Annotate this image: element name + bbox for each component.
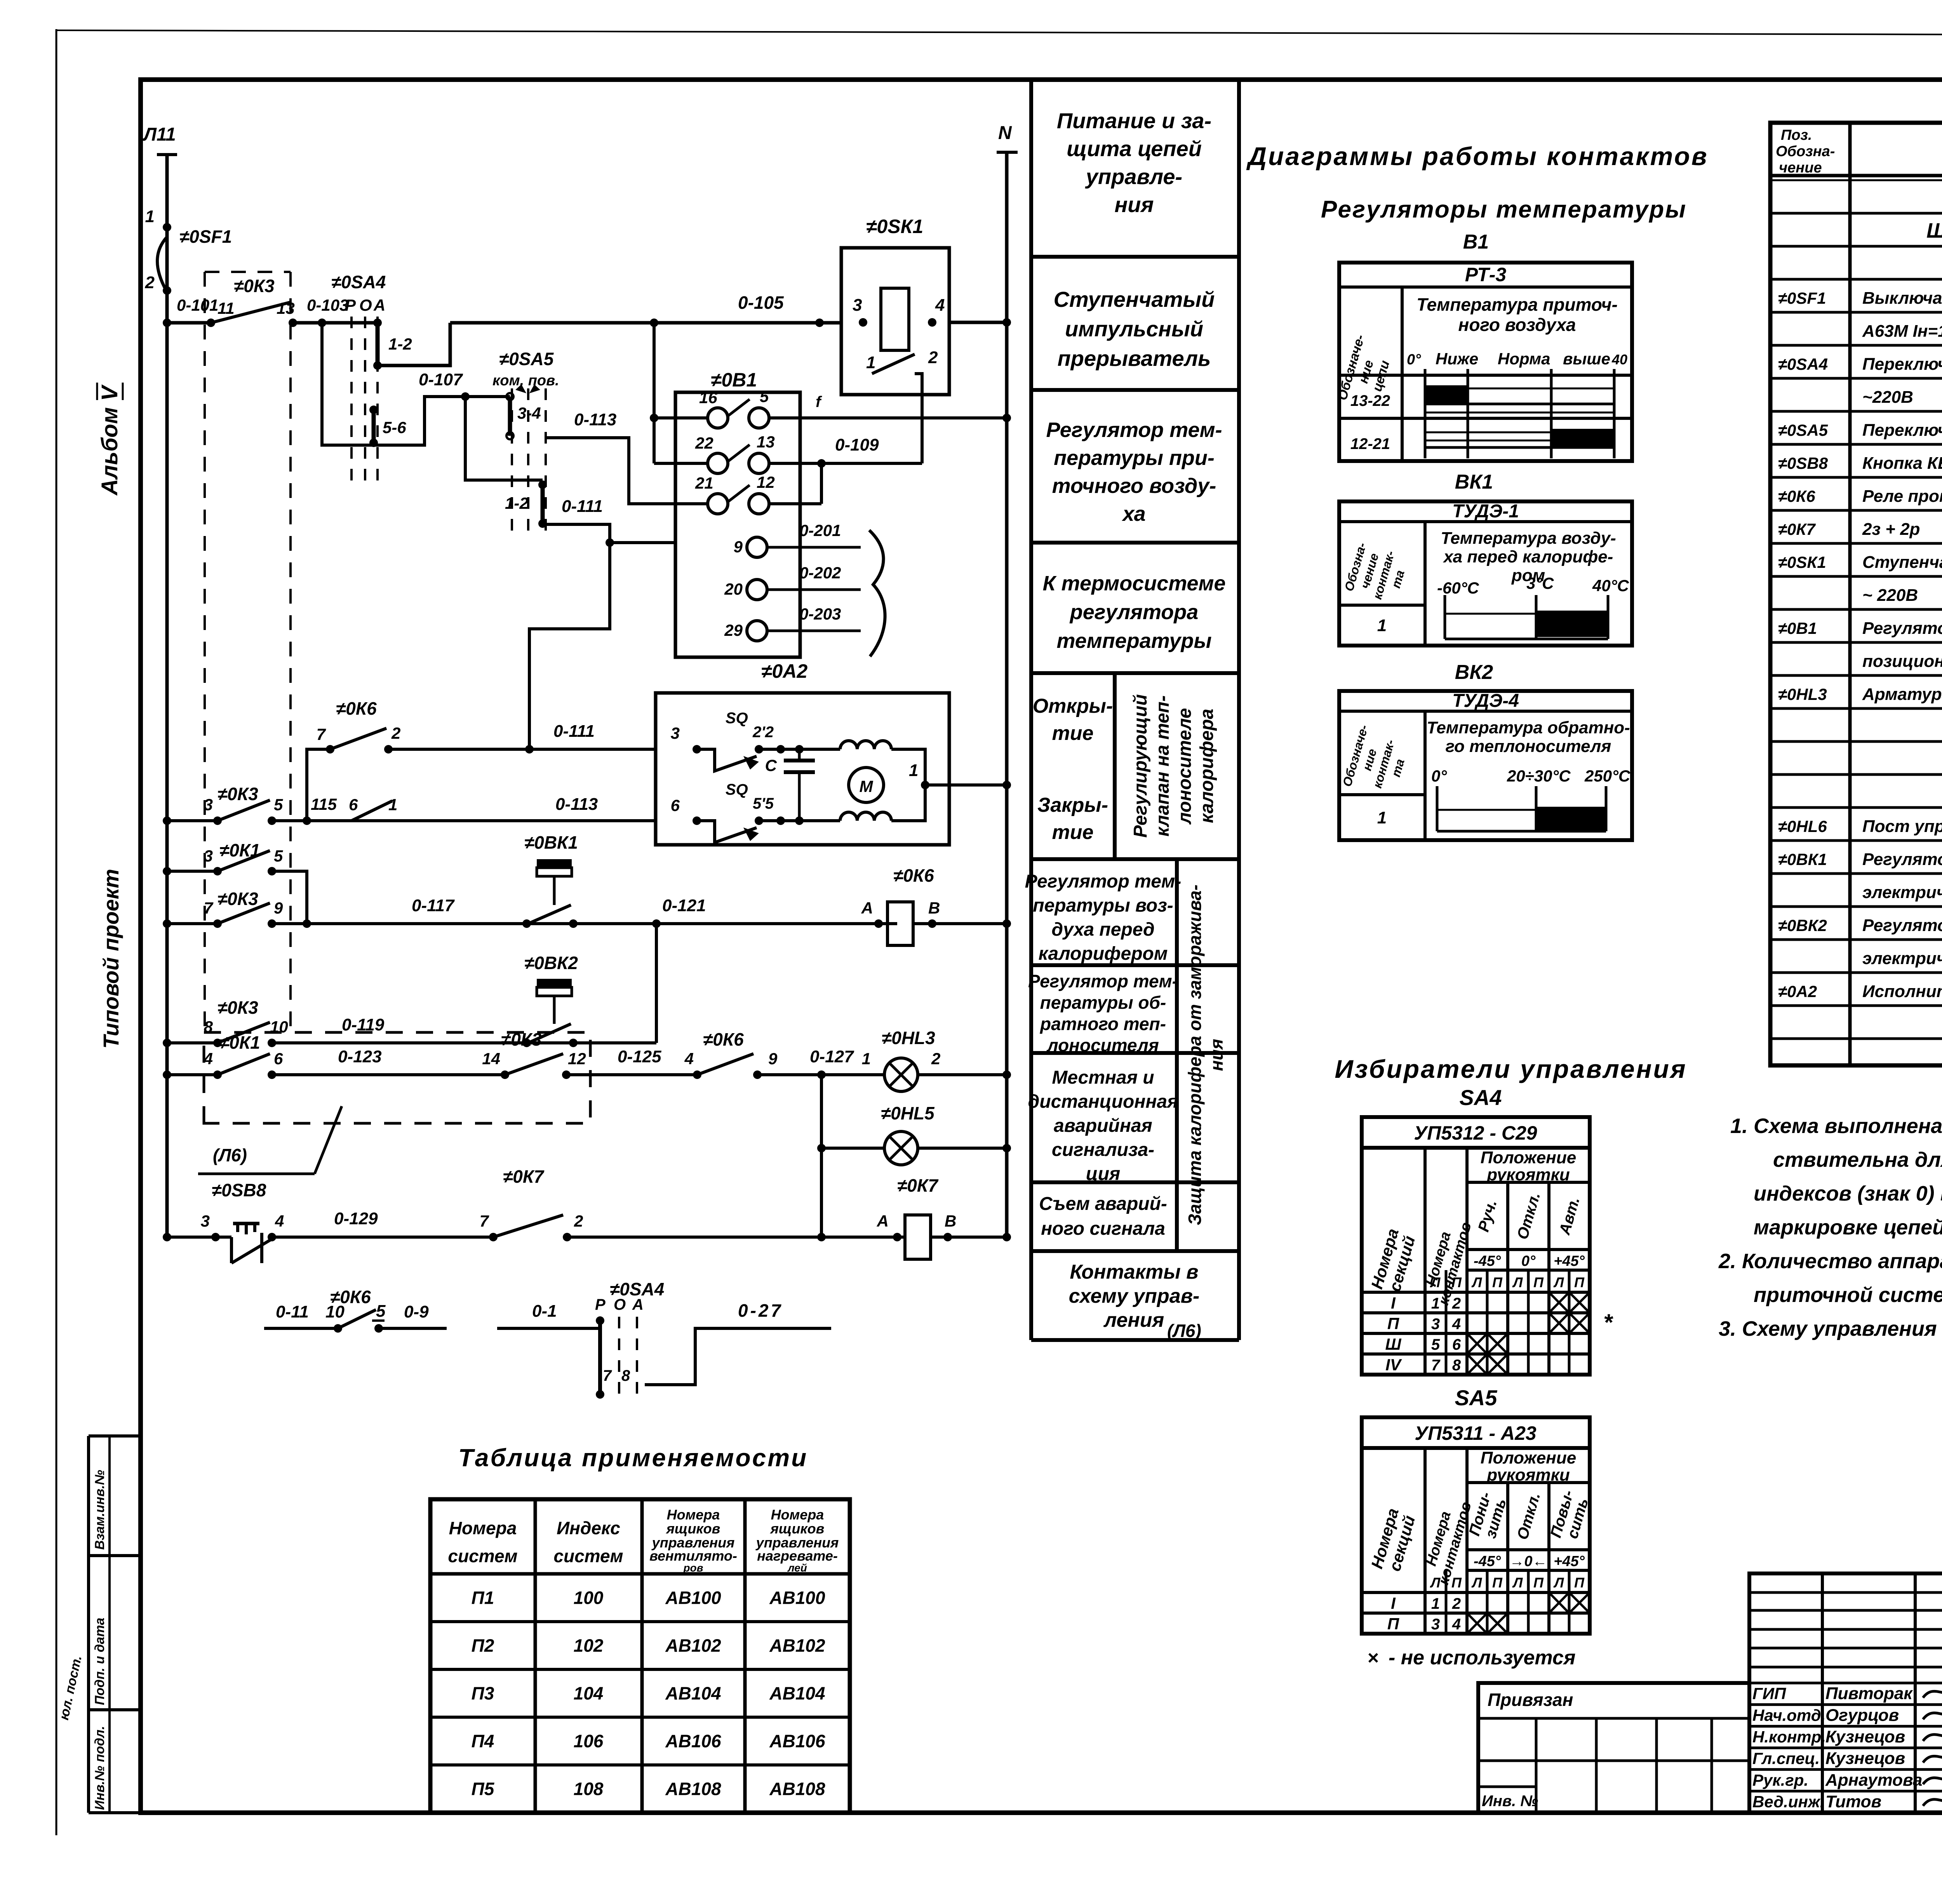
svg-text:АВ108: АВ108 [769, 1779, 825, 1799]
svg-text:М: М [860, 777, 874, 795]
svg-text:АВ100: АВ100 [769, 1588, 825, 1608]
svg-text:А: А [877, 1212, 889, 1230]
svg-text:О: О [614, 1296, 626, 1313]
svg-text:В: В [928, 899, 940, 917]
svg-text:Пивторак: Пивторак [1825, 1684, 1913, 1703]
svg-text:0-111: 0-111 [553, 722, 595, 741]
svg-text:≠0К7: ≠0К7 [503, 1166, 545, 1187]
svg-text:П: П [1574, 1575, 1585, 1591]
svg-text:Выключатель автоматический: Выключатель автоматический [1862, 289, 1942, 308]
svg-text:П: П [1533, 1274, 1544, 1290]
svg-text:схему управ-: схему управ- [1069, 1285, 1200, 1307]
svg-text:систем: систем [448, 1546, 517, 1566]
svg-text:ция: ция [1086, 1164, 1121, 1184]
svg-text:Регулятор тем-: Регулятор тем- [1028, 971, 1178, 991]
svg-text:1. Схема выполнена для прит: 1. Схема выполнена для приточной системы… [1730, 1114, 1942, 1138]
svg-text:сигнализа-: сигнализа- [1052, 1140, 1154, 1160]
svg-text:Температура обратно-: Температура обратно- [1427, 718, 1630, 737]
svg-text:Огурцов: Огурцов [1825, 1706, 1899, 1725]
svg-text:0-109: 0-109 [835, 435, 879, 454]
svg-text:Регулятор температуры, дилатом: Регулятор температуры, дилатометрический [1862, 916, 1942, 935]
svg-text:≠0НL3: ≠0НL3 [882, 1028, 935, 1048]
svg-text:+45°: +45° [1554, 1553, 1585, 1570]
svg-text:2: 2 [1452, 1595, 1461, 1612]
svg-text:Номера: Номера [771, 1507, 824, 1523]
svg-text:ления: ления [1103, 1309, 1164, 1331]
svg-text:ха: ха [1121, 502, 1145, 526]
svg-text:7: 7 [317, 725, 326, 743]
svg-text:≠0К3: ≠0К3 [218, 784, 258, 804]
svg-text:SQ: SQ [726, 710, 748, 727]
svg-text:Защита калорифера от заморажив: Защита калорифера от заморажива- [1185, 884, 1205, 1225]
svg-text:11: 11 [218, 299, 235, 317]
svg-text:2: 2 [145, 273, 155, 292]
svg-text:0-117: 0-117 [412, 896, 455, 915]
svg-text:102: 102 [574, 1636, 604, 1656]
svg-text:~ 220В: ~ 220В [1862, 586, 1918, 605]
svg-text:ящиков: ящиков [666, 1521, 720, 1537]
svg-text:Привязан: Привязан [1488, 1690, 1573, 1710]
svg-text:Л: Л [1430, 1274, 1441, 1290]
svg-text:Ступенчатый: Ступенчатый [1054, 287, 1215, 312]
svg-text:АВ106: АВ106 [665, 1731, 721, 1751]
svg-text:Л: Л [1512, 1575, 1523, 1591]
svg-text:1: 1 [1431, 1595, 1440, 1612]
svg-text:0-203: 0-203 [799, 605, 841, 623]
svg-text:чение: чение [1779, 160, 1822, 176]
svg-text:0-113: 0-113 [574, 410, 616, 429]
svg-text:≠0ВК1: ≠0ВК1 [1778, 850, 1827, 868]
svg-text:Поз.: Поз. [1781, 127, 1812, 143]
svg-text:Подп. и дата: Подп. и дата [92, 1618, 107, 1705]
svg-text:Ступенчатый импульсный прерыва: Ступенчатый импульсный прерыватель СИП-0… [1862, 553, 1942, 572]
svg-text:тие: тие [1052, 821, 1094, 844]
svg-text:≠0SА4: ≠0SА4 [1778, 355, 1828, 373]
svg-text:0-125: 0-125 [618, 1047, 661, 1066]
svg-text:Р: Р [595, 1296, 606, 1313]
svg-text:10: 10 [325, 1302, 345, 1321]
svg-text:прерыватель: прерыватель [1058, 346, 1211, 371]
svg-text:0-111: 0-111 [562, 497, 603, 516]
svg-text:2'2: 2'2 [752, 724, 774, 741]
svg-text:4: 4 [935, 296, 945, 315]
svg-text:-60°С: -60°С [1437, 579, 1479, 597]
svg-text:3°С: 3°С [1526, 574, 1554, 592]
svg-text:Съем аварий-: Съем аварий- [1039, 1194, 1167, 1214]
svg-text:4: 4 [684, 1049, 694, 1068]
svg-text:Гл.спец.: Гл.спец. [1752, 1749, 1820, 1768]
svg-text:-45°: -45° [1474, 1253, 1501, 1269]
svg-text:≠0НL6: ≠0НL6 [1778, 817, 1827, 835]
svg-text:температуры: температуры [1056, 629, 1211, 653]
svg-text:П: П [1492, 1575, 1503, 1591]
svg-text:104: 104 [574, 1683, 604, 1704]
svg-text:≠0В1: ≠0В1 [1778, 619, 1817, 637]
svg-text:Избиратели управления: Избиратели управления [1335, 1055, 1687, 1083]
svg-text:1-2: 1-2 [505, 494, 529, 512]
svg-text:импульсный: импульсный [1065, 317, 1203, 341]
svg-text:13-22: 13-22 [1350, 392, 1390, 409]
svg-text:21: 21 [695, 474, 713, 492]
svg-text:SА5: SА5 [1455, 1385, 1498, 1410]
svg-text:пературы при-: пературы при- [1054, 446, 1215, 470]
svg-text:2. Количество аппаратуры и п: 2. Количество аппаратуры и приборов в пе… [1718, 1250, 1942, 1273]
svg-text:29: 29 [724, 621, 743, 639]
svg-text:Л: Л [1471, 1274, 1483, 1290]
svg-text:Нач.отд.: Нач.отд. [1752, 1706, 1825, 1724]
svg-text:3. Схему управления приточно: 3. Схему управления приточной системой л… [1719, 1317, 1942, 1340]
svg-text:Титов: Титов [1825, 1792, 1881, 1811]
svg-text:духа перед: духа перед [1051, 919, 1154, 940]
svg-text:АВ104: АВ104 [665, 1683, 721, 1704]
svg-text:→0←: →0← [1509, 1553, 1547, 1570]
svg-text:≠0SК1: ≠0SК1 [1778, 553, 1826, 571]
svg-text:Пост управления ПКУ-15.19.331: Пост управления ПКУ-15.19.331-54У2 [1862, 817, 1942, 836]
svg-text:П: П [1451, 1274, 1462, 1290]
svg-text:вентилято-: вентилято- [649, 1548, 737, 1564]
svg-text:Рук.гр.: Рук.гр. [1752, 1771, 1808, 1789]
svg-text:13: 13 [757, 433, 775, 451]
svg-text:нагревате-: нагревате- [757, 1548, 838, 1564]
svg-text:Регуляторы температуры: Регуляторы температуры [1321, 196, 1687, 223]
svg-text:0-9: 0-9 [404, 1302, 429, 1321]
svg-text:5: 5 [274, 795, 283, 814]
svg-text:П5: П5 [472, 1779, 495, 1799]
svg-text:≠0К3: ≠0К3 [234, 276, 275, 296]
svg-text:Температура приточ-: Температура приточ- [1416, 294, 1618, 315]
svg-text:115: 115 [311, 795, 337, 813]
svg-text:≠0НL5: ≠0НL5 [881, 1103, 935, 1123]
svg-text:АВ106: АВ106 [769, 1731, 825, 1751]
svg-text:12-21: 12-21 [1350, 435, 1390, 453]
svg-text:регулятора: регулятора [1069, 600, 1199, 624]
svg-text:ров: ров [683, 1562, 703, 1574]
svg-text:Ш: Ш [1385, 1335, 1401, 1353]
svg-text:1: 1 [388, 795, 397, 814]
svg-text:Л: Л [1553, 1274, 1564, 1290]
svg-text:5: 5 [1431, 1336, 1440, 1353]
svg-text:А63М Iн=1А; Iотс. = 1,3Iн: А63М Iн=1А; Iотс. = 1,3Iн [1862, 322, 1942, 341]
svg-text:Индекс: Индекс [557, 1518, 620, 1538]
svg-text:лоносителя: лоносителя [1046, 1035, 1159, 1055]
svg-text:3: 3 [204, 847, 213, 865]
svg-text:индексов (знак 0) в обозначе: индексов (знак 0) в обозначении аппарато… [1754, 1182, 1942, 1205]
svg-text:2: 2 [391, 724, 400, 742]
svg-text:≠0ВК1: ≠0ВК1 [524, 832, 578, 853]
svg-text:Откры-: Откры- [1033, 695, 1113, 717]
svg-text:40: 40 [1611, 352, 1627, 367]
svg-text:0-123: 0-123 [338, 1047, 382, 1066]
svg-text:В: В [945, 1212, 956, 1230]
svg-text:6: 6 [349, 795, 358, 814]
svg-text:лей: лей [787, 1562, 807, 1574]
svg-text:12: 12 [568, 1049, 586, 1068]
svg-text:≠0SF1: ≠0SF1 [179, 226, 232, 247]
svg-text:Кнопка КЕ01193, исп,2 ; Крас: Кнопка КЕ01193, исп,2 ; Красный, б/н [1862, 454, 1942, 473]
svg-text:О: О [359, 296, 372, 314]
svg-text:ком. пов.: ком. пов. [492, 372, 559, 389]
svg-text:Л: Л [1512, 1274, 1523, 1290]
svg-text:0-11: 0-11 [276, 1302, 309, 1321]
svg-text:1-2: 1-2 [388, 335, 412, 353]
svg-text:≠0SА4: ≠0SА4 [331, 272, 386, 292]
svg-text:20: 20 [724, 580, 743, 598]
svg-text:16: 16 [699, 388, 717, 407]
svg-text:6: 6 [671, 796, 680, 815]
svg-text:ствительна для приточных с: ствительна для приточных систем П2÷П5 с … [1773, 1148, 1942, 1171]
svg-text:5: 5 [274, 847, 283, 865]
svg-text:электрический ТУДЭ-4; 0°÷250°С: электрический ТУДЭ-4; 0°÷250°С; ~220В [1862, 949, 1942, 968]
svg-text:9: 9 [274, 899, 283, 917]
svg-text:П: П [1387, 1615, 1399, 1633]
svg-text:П4: П4 [472, 1731, 494, 1751]
svg-text:≠0SК1: ≠0SК1 [866, 216, 923, 237]
svg-text:Регулирующий: Регулирующий [1130, 694, 1151, 837]
svg-text:4: 4 [1452, 1316, 1461, 1333]
svg-text:×: × [1367, 1647, 1378, 1669]
svg-text:приточной системы: приточной системы [1754, 1283, 1942, 1307]
svg-text:ного воздуха: ного воздуха [1458, 315, 1576, 335]
svg-text:IV: IV [1385, 1356, 1402, 1374]
svg-text:106: 106 [574, 1731, 604, 1751]
svg-text:8: 8 [621, 1367, 630, 1384]
svg-text:7: 7 [1431, 1357, 1441, 1374]
svg-text:≠0SА5: ≠0SА5 [1778, 421, 1828, 439]
svg-text:Р: Р [345, 296, 356, 314]
svg-text:≠0SА5: ≠0SА5 [499, 349, 554, 369]
svg-text:2з + 2р: 2з + 2р [1862, 520, 1920, 539]
svg-text:Инв. №: Инв. № [1482, 1793, 1538, 1810]
svg-text:≠0SВ8: ≠0SВ8 [212, 1180, 266, 1200]
svg-text:Норма: Норма [1498, 350, 1550, 368]
svg-text:*: * [1603, 1309, 1613, 1335]
svg-text:рукоятки: рукоятки [1486, 1465, 1570, 1485]
svg-text:Переключатель универсальный УП: Переключатель универсальный УП5312-С29; [1862, 355, 1942, 374]
svg-text:лоносителе: лоносителе [1175, 708, 1195, 825]
svg-text:Номера: Номера [667, 1507, 720, 1523]
svg-text:1: 1 [862, 1049, 871, 1068]
svg-text:Л11: Л11 [143, 124, 176, 145]
svg-text:I: I [1391, 1294, 1396, 1312]
svg-text:≠0SF1: ≠0SF1 [1778, 289, 1826, 307]
svg-text:3: 3 [201, 1212, 210, 1230]
svg-text:щита цепей: щита цепей [1067, 136, 1202, 161]
svg-text:систем: систем [553, 1546, 623, 1566]
svg-text:+45°: +45° [1554, 1253, 1585, 1269]
svg-text:П1: П1 [472, 1588, 494, 1608]
svg-text:≠0К1: ≠0К1 [219, 1032, 260, 1053]
svg-text:7: 7 [480, 1212, 489, 1230]
svg-text:Инв.№ подл.: Инв.№ подл. [92, 1726, 107, 1810]
svg-text:1: 1 [909, 761, 918, 780]
svg-text:Кузнецов: Кузнецов [1825, 1749, 1905, 1768]
svg-text:ГИП: ГИП [1752, 1685, 1786, 1703]
svg-text:ТУДЭ-4: ТУДЭ-4 [1452, 691, 1519, 711]
svg-text:Переключатель универсальный УП: Переключатель универсальный УП5311-А23;~… [1862, 421, 1942, 440]
svg-text:РТ-3: РТ-3 [1465, 264, 1507, 285]
svg-text:≠0К6: ≠0К6 [893, 865, 934, 886]
svg-text:0°: 0° [1407, 352, 1421, 368]
svg-text:Диаграммы работы контактов: Диаграммы работы контактов [1246, 142, 1708, 171]
svg-text:Исполнительный механизм МЭО;: Исполнительный механизм МЭО; ~220В [1862, 982, 1942, 1001]
svg-text:Реле промежуточное РПУ-2-3622: Реле промежуточное РПУ-2-36220УЗБ; ~220В… [1862, 487, 1942, 506]
svg-text:АВ100: АВ100 [665, 1588, 721, 1608]
svg-text:7: 7 [603, 1367, 612, 1384]
svg-text:SА4: SА4 [1460, 1085, 1502, 1110]
svg-text:Л: Л [1553, 1575, 1564, 1591]
svg-text:пературы воз-: пературы воз- [1033, 895, 1173, 916]
svg-text:Л: Л [1430, 1575, 1441, 1591]
svg-text:(Л6): (Л6) [213, 1145, 247, 1165]
svg-text:3: 3 [1431, 1616, 1440, 1633]
svg-text:Н.контр.: Н.контр. [1752, 1728, 1826, 1746]
svg-text:5-6: 5-6 [383, 418, 406, 437]
svg-text:Закры-: Закры- [1037, 794, 1108, 816]
svg-text:ха перед калорифе-: ха перед калорифе- [1443, 547, 1613, 566]
svg-text:22: 22 [695, 434, 713, 452]
svg-text:позиционный РТ-3; Гр. 23; 0°÷: позиционный РТ-3; Гр. 23; 0°÷40°С; ~220В [1862, 652, 1942, 671]
svg-text:2: 2 [1452, 1295, 1461, 1312]
svg-text:0-101: 0-101 [177, 296, 218, 314]
svg-text:0-121: 0-121 [662, 896, 706, 915]
svg-text:ящиков: ящиков [770, 1521, 825, 1537]
svg-text:аварийная: аварийная [1054, 1116, 1152, 1136]
svg-text:0°: 0° [1431, 767, 1447, 785]
svg-text:6: 6 [1452, 1336, 1461, 1353]
svg-text:3: 3 [1431, 1316, 1440, 1333]
svg-text:В1: В1 [1463, 231, 1489, 253]
svg-text:А: А [373, 296, 385, 314]
svg-text:8: 8 [1452, 1357, 1461, 1374]
svg-text:≠0К7: ≠0К7 [897, 1175, 939, 1196]
svg-text:рукоятки: рукоятки [1486, 1165, 1570, 1184]
svg-text:ния: ния [1206, 1039, 1227, 1071]
svg-text:П: П [1387, 1314, 1399, 1333]
svg-text:100: 100 [574, 1588, 604, 1608]
svg-text:0-1: 0-1 [532, 1302, 557, 1321]
svg-text:3: 3 [853, 296, 862, 315]
svg-text:≠0ВК2: ≠0ВК2 [1778, 916, 1827, 935]
svg-text:Регулятор тем-: Регулятор тем- [1046, 418, 1222, 442]
svg-text:3-4: 3-4 [517, 404, 541, 422]
svg-text:П: П [1533, 1575, 1544, 1591]
svg-text:Питание и за-: Питание и за- [1057, 108, 1211, 133]
svg-text:1: 1 [1431, 1295, 1440, 1312]
svg-text:Регулятор тем-: Регулятор тем- [1025, 871, 1182, 892]
svg-text:4: 4 [1452, 1616, 1461, 1633]
svg-text:П: П [1492, 1274, 1503, 1290]
svg-text:П3: П3 [472, 1683, 494, 1704]
svg-text:1: 1 [866, 353, 875, 372]
svg-text:0-27: 0-27 [738, 1300, 783, 1321]
svg-text:2: 2 [574, 1212, 583, 1230]
svg-text:0°: 0° [1521, 1253, 1536, 1269]
svg-text:0-113: 0-113 [555, 795, 598, 814]
svg-text:клапан на теп-: клапан на теп- [1152, 695, 1173, 837]
svg-text:0-201: 0-201 [799, 521, 841, 540]
svg-text:0-127: 0-127 [810, 1047, 854, 1066]
svg-text:Типовой проект: Типовой проект [99, 869, 123, 1049]
svg-text:АВ104: АВ104 [769, 1683, 825, 1704]
svg-text:электрический ТУДЭ-1;-60° ÷ 40: электрический ТУДЭ-1;-60° ÷ 40°С; ~220В [1862, 883, 1942, 902]
svg-text:С: С [765, 756, 777, 774]
svg-text:≠0К6: ≠0К6 [1778, 487, 1815, 505]
svg-text:≠0К6: ≠0К6 [703, 1029, 744, 1049]
svg-text:калорифера: калорифера [1197, 709, 1217, 823]
svg-text:А: А [861, 899, 873, 917]
svg-text:ного сигнала: ного сигнала [1041, 1218, 1165, 1239]
svg-text:Местная и: Местная и [1052, 1067, 1154, 1088]
svg-text:SQ: SQ [726, 781, 748, 798]
svg-text:≠0К3: ≠0К3 [218, 889, 258, 909]
svg-text:Арнаутова: Арнаутова [1825, 1770, 1922, 1789]
svg-text:Щит автоматизации АДО: Щит автоматизации АДО [1926, 219, 1942, 242]
svg-text:управле-: управле- [1085, 164, 1182, 189]
svg-text:точного возду-: точного возду- [1052, 474, 1216, 498]
svg-text:0-129: 0-129 [334, 1209, 378, 1228]
svg-text:~220В: ~220В [1862, 388, 1913, 407]
svg-text:Ниже: Ниже [1436, 350, 1478, 368]
svg-text:Альбом V: Альбом V [97, 384, 122, 496]
svg-text:АВ108: АВ108 [665, 1779, 721, 1799]
svg-text:УП5311 - А23: УП5311 - А23 [1415, 1422, 1537, 1444]
svg-text:П: П [1574, 1274, 1585, 1290]
svg-text:К термосистеме: К термосистеме [1042, 572, 1225, 595]
svg-text:П: П [1451, 1575, 1462, 1591]
svg-text:1: 1 [145, 207, 155, 226]
svg-text:ния: ния [1114, 192, 1154, 217]
svg-text:I: I [1391, 1594, 1396, 1612]
svg-text:6: 6 [274, 1049, 283, 1068]
svg-text:выше: выше [1563, 350, 1610, 368]
svg-text:20÷30°С: 20÷30°С [1507, 767, 1571, 785]
svg-text:маркировке цепей согласно т: маркировке цепей согласно таблице примен… [1754, 1216, 1942, 1239]
svg-text:108: 108 [574, 1779, 604, 1799]
svg-text:250°С: 250°С [1584, 767, 1631, 785]
svg-text:9: 9 [768, 1049, 778, 1068]
svg-text:(Л6): (Л6) [1167, 1321, 1201, 1341]
svg-text:0-105: 0-105 [738, 292, 784, 313]
svg-text:Положение: Положение [1481, 1448, 1576, 1467]
svg-text:Таблица применяемости: Таблица применяемости [458, 1444, 808, 1472]
svg-text:≠0К6: ≠0К6 [336, 698, 377, 719]
svg-text:5'5: 5'5 [753, 795, 774, 812]
svg-text:1: 1 [1377, 616, 1387, 635]
svg-text:дистанционная: дистанционная [1028, 1091, 1178, 1112]
svg-text:пературы об-: пературы об- [1040, 992, 1166, 1013]
svg-text:40°С: 40°С [1592, 576, 1629, 595]
svg-text:Вед.инж.: Вед.инж. [1752, 1793, 1824, 1811]
svg-text:Взам.инв.№: Взам.инв.№ [92, 1470, 107, 1550]
svg-text:- не используется: - не используется [1389, 1646, 1575, 1669]
svg-text:3: 3 [204, 795, 213, 814]
svg-text:≠0К7: ≠0К7 [1778, 520, 1816, 538]
svg-text:5: 5 [376, 1302, 386, 1321]
svg-text:5: 5 [760, 387, 769, 406]
svg-text:Контакты в: Контакты в [1070, 1261, 1198, 1283]
svg-text:14: 14 [482, 1049, 500, 1068]
svg-text:Кузнецов: Кузнецов [1825, 1727, 1905, 1746]
svg-text:го теплоносителя: го теплоносителя [1446, 737, 1611, 756]
svg-text:7: 7 [204, 899, 214, 917]
svg-text:3: 3 [671, 724, 680, 742]
svg-text:≠0ВК2: ≠0ВК2 [524, 953, 578, 973]
svg-text:калорифером: калорифером [1039, 943, 1168, 964]
svg-text:0-107: 0-107 [419, 370, 463, 389]
svg-text:0-103: 0-103 [307, 296, 348, 314]
svg-text:N: N [998, 123, 1012, 143]
svg-text:4: 4 [275, 1212, 284, 1230]
